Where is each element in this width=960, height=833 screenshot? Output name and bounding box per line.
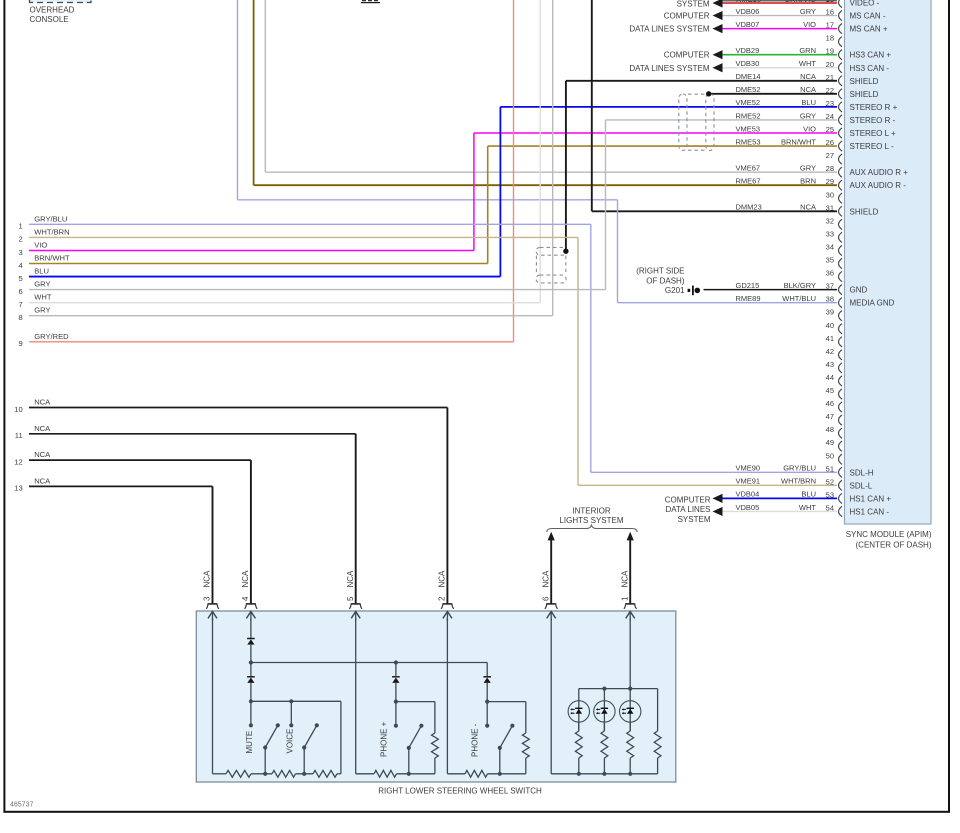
pin 51 bracket — [839, 467, 843, 477]
wire VME52 BLU pin23 — [500, 106, 837, 108]
svg-text:VDB07: VDB07 — [736, 20, 760, 29]
LED L1 wire to bus — [578, 758, 580, 774]
phone+ right branch upper — [434, 702, 436, 733]
svg-text:WHT/BLU: WHT/BLU — [782, 294, 816, 303]
svg-text:NCA: NCA — [800, 85, 816, 94]
junction dot common diode rail — [249, 660, 253, 664]
switch entry 3 arrow — [208, 612, 217, 619]
phone- pivot to bus — [499, 748, 501, 774]
D3 to phone+ contact — [395, 683, 397, 726]
LED L3 wire lower — [629, 722, 631, 731]
pin 17 bracket — [839, 24, 843, 34]
svg-text:VIO: VIO — [803, 20, 816, 29]
bus segment — [213, 773, 227, 775]
wire 1 NCA vertical to switch — [629, 540, 631, 603]
voice tap dot — [289, 699, 293, 703]
ground symbol G201 — [688, 286, 701, 296]
wire VME90 GRY/BLU pin51 — [591, 471, 837, 473]
switch wire pin2 down — [446, 618, 448, 774]
SYNC module (APIM) box — [845, 0, 932, 524]
phone- fixed contact — [485, 724, 489, 728]
svg-text:1: 1 — [18, 222, 22, 231]
switch entry 3 arrow stem — [212, 612, 214, 622]
wire GRY vertical pin6-pin24 — [605, 120, 607, 290]
wire WHT/BLU horizontal — [238, 199, 618, 201]
svg-text:NCA: NCA — [346, 570, 355, 588]
svg-text:465737: 465737 — [10, 802, 33, 809]
svg-text:PHONE +: PHONE + — [380, 721, 389, 757]
shield junction dot upper — [706, 91, 711, 96]
svg-text:VDB05: VDB05 — [736, 503, 760, 512]
svg-text:NCA: NCA — [241, 570, 250, 588]
wire WHT/BLU vertical from top — [237, 0, 239, 200]
svg-text:13: 13 — [14, 484, 22, 493]
wire WHT/BLU vertical to pin38 — [617, 200, 619, 303]
pin 25 bracket — [839, 128, 843, 138]
wire 4 BRN/WHT left pin — [29, 263, 488, 265]
wire 8 GRY left pin — [29, 315, 553, 317]
svg-text:SDL-H: SDL-H — [850, 468, 874, 477]
phone- node — [485, 700, 489, 704]
ladder right branch col1 — [340, 701, 342, 774]
pin 27 bracket — [839, 154, 843, 164]
pin 43 bracket — [839, 363, 843, 373]
bus dot phone- — [498, 772, 502, 776]
pin 48 bracket — [839, 428, 843, 438]
wire 12 NCA vertical to switch — [250, 460, 252, 603]
svg-text:VME90: VME90 — [736, 464, 761, 473]
pin 47 bracket — [839, 415, 843, 425]
svg-text:48: 48 — [826, 425, 834, 434]
resistor R8 — [575, 731, 582, 758]
svg-text:HS3 CAN +: HS3 CAN + — [850, 51, 892, 60]
switch wire pin1 down — [629, 618, 631, 689]
wire VIO vertical pin3-pin25 — [473, 133, 475, 250]
wire VDB06 GRY pin16 — [723, 15, 838, 17]
svg-text:6: 6 — [18, 287, 22, 296]
svg-text:NCA: NCA — [800, 72, 816, 81]
phone- pivot — [498, 746, 502, 750]
svg-text:AUX AUDIO R -: AUX AUDIO R - — [850, 181, 907, 190]
pin 29 bracket — [839, 180, 843, 190]
switch entry 2 connector cup — [441, 603, 454, 609]
LED L2 wire lower — [603, 722, 605, 731]
wire 10 NCA vertical to switch — [446, 408, 448, 604]
svg-text:10: 10 — [14, 405, 22, 414]
pin 32 bracket — [839, 219, 843, 229]
pin 33 bracket — [839, 232, 843, 242]
shield symbol lower (down pairs) — [536, 247, 566, 283]
diode D1 mute column — [247, 639, 255, 645]
switch entry 4 arrow stem — [250, 612, 252, 622]
svg-text:GRY/BLU: GRY/BLU — [783, 464, 816, 473]
svg-text:34: 34 — [826, 242, 834, 251]
switch entry 6 connector cup — [545, 603, 558, 609]
wire 11 NCA left pin — [29, 433, 356, 435]
svg-text:VDB30: VDB30 — [736, 59, 760, 68]
wire DME52 NCA pin22 — [709, 93, 837, 95]
svg-text:45: 45 — [826, 386, 834, 395]
bus segment — [251, 773, 272, 775]
svg-text:NCA: NCA — [34, 450, 51, 459]
svg-text:40: 40 — [826, 321, 834, 330]
pin 41 bracket — [839, 337, 843, 347]
wire VME67 GRY pin28 — [265, 171, 837, 173]
svg-text:NCA: NCA — [438, 570, 447, 588]
voice fixed contact — [289, 723, 293, 727]
wire 2 WHT/BRN left pin — [29, 236, 578, 238]
svg-text:2: 2 — [438, 596, 447, 601]
svg-text:18: 18 — [826, 34, 834, 43]
voice contact drop — [290, 701, 292, 725]
connector label C915 (cut) — [361, 0, 380, 3]
svg-text:35: 35 — [826, 256, 834, 265]
svg-text:GRY: GRY — [800, 7, 816, 16]
pin 16 bracket — [839, 10, 843, 20]
svg-text:DME52: DME52 — [736, 85, 761, 94]
LED L3 symbol — [622, 708, 634, 714]
svg-text:NCA: NCA — [541, 570, 550, 588]
phone- right branch lower — [525, 758, 527, 774]
switch entry 6 arrow stem — [550, 612, 552, 622]
svg-text:MEDIA GND: MEDIA GND — [850, 299, 895, 308]
svg-text:33: 33 — [826, 229, 834, 238]
voice arm tip — [315, 723, 319, 727]
svg-text:VIO: VIO — [34, 240, 47, 249]
svg-text:RME53: RME53 — [736, 137, 761, 146]
svg-text:COMPUTER: COMPUTER — [664, 51, 710, 60]
svg-text:SHIELD: SHIELD — [850, 77, 879, 86]
wire GRY/RED vertical pin9 to top — [513, 0, 515, 342]
pin 20 bracket — [839, 63, 843, 73]
row 15 wire (cut) to VIDEO- — [723, 2, 838, 4]
pin 38 bracket — [839, 298, 843, 308]
pin 44 bracket — [839, 376, 843, 386]
svg-text:BRN/WHT: BRN/WHT — [34, 254, 70, 263]
diode D2 mute column — [247, 677, 255, 683]
svg-text:MUTE: MUTE — [245, 731, 254, 754]
LED L2 wire to bus — [603, 758, 605, 774]
resistor R2 — [272, 770, 296, 777]
svg-text:RME67: RME67 — [736, 177, 761, 186]
wire GD215 BLK/GRY pin37 — [704, 289, 838, 291]
wire VME91 WHT/BRN pin52 — [578, 484, 837, 486]
switch wire pin6 down — [550, 618, 552, 774]
bus segment — [356, 773, 374, 775]
pin 45 bracket — [839, 389, 843, 399]
svg-text:DATA LINES: DATA LINES — [665, 505, 710, 514]
svg-text:STEREO L +: STEREO L + — [850, 129, 896, 138]
wire RME89 WHT/BLU pin38 — [618, 302, 838, 304]
D4 to phone- contact — [486, 683, 488, 726]
svg-text:4: 4 — [241, 596, 250, 601]
svg-text:MS CAN -: MS CAN - — [850, 12, 886, 21]
wire RME67 BRN pin29 — [254, 184, 837, 186]
switch entry 6 arrow — [547, 612, 556, 619]
bus dot phone+ — [407, 772, 411, 776]
off-page arrow row 54 — [713, 507, 723, 516]
pin 15 bracket — [839, 0, 843, 8]
interior lights brace — [547, 525, 638, 532]
bus segment — [488, 773, 526, 775]
switch entry 5 arrow — [351, 612, 360, 619]
bus segment — [447, 773, 465, 775]
svg-text:NCA: NCA — [800, 203, 816, 212]
wire BLU vertical pin5-pin23 — [499, 107, 501, 277]
wire GRY/BLU vertical pin1-pin51 — [590, 224, 592, 472]
wire RME52 GRY pin24 — [606, 119, 838, 121]
svg-text:AUX AUDIO R +: AUX AUDIO R + — [850, 168, 909, 177]
LED right branch upper — [657, 689, 659, 731]
resistor R4 phone+ — [432, 733, 439, 758]
svg-text:5: 5 — [346, 596, 355, 601]
svg-text:STEREO R -: STEREO R - — [850, 116, 896, 125]
wire VDB29 GRN pin19 — [723, 54, 838, 56]
wire 6 GRY left pin — [29, 289, 606, 291]
svg-text:46: 46 — [826, 399, 834, 408]
mute fixed contact — [249, 723, 253, 727]
LED top rail — [579, 688, 658, 690]
resistor R1 — [226, 770, 251, 777]
svg-text:9: 9 — [18, 339, 22, 348]
svg-text:SYNC MODULE (APIM): SYNC MODULE (APIM) — [846, 530, 932, 539]
interior lights up arrow left — [548, 532, 555, 541]
overhead console box (cut) — [30, 0, 92, 3]
svg-text:30: 30 — [826, 190, 834, 199]
LED L1 circle — [568, 701, 589, 722]
svg-text:GD215: GD215 — [736, 281, 760, 290]
svg-text:GRY/RED: GRY/RED — [34, 332, 69, 341]
wire 7 WHT left pin — [29, 302, 540, 304]
resistor R11 led branch — [654, 731, 661, 758]
svg-text:WHT: WHT — [34, 293, 52, 302]
svg-text:SHIELD: SHIELD — [850, 207, 879, 216]
pin 52 bracket — [839, 480, 843, 490]
mute arm tip — [276, 723, 280, 727]
svg-text:GRY: GRY — [800, 111, 816, 120]
svg-text:7: 7 — [18, 300, 22, 309]
ladder top rail col1 — [251, 700, 341, 702]
svg-text:VDB29: VDB29 — [736, 46, 760, 55]
svg-text:BRN/VIO: BRN/VIO — [785, 0, 816, 4]
svg-text:BRN: BRN — [800, 177, 816, 186]
svg-text:GRY: GRY — [34, 306, 50, 315]
pin 37 bracket — [839, 285, 843, 295]
svg-text:COMPUTER: COMPUTER — [664, 12, 710, 21]
svg-text:OF DASH): OF DASH) — [646, 277, 685, 286]
svg-text:SYSTEM: SYSTEM — [677, 0, 710, 8]
off-page arrow row 53 — [713, 494, 723, 503]
svg-text:39: 39 — [826, 308, 834, 317]
svg-text:SYSTEM: SYSTEM — [678, 515, 711, 524]
svg-text:NCA: NCA — [203, 570, 212, 588]
interior lights up arrow right — [627, 532, 634, 541]
svg-text:4: 4 — [18, 261, 22, 270]
svg-text:LIGHTS SYSTEM: LIGHTS SYSTEM — [559, 516, 623, 525]
svg-text:36: 36 — [826, 269, 834, 278]
phone+ top rail — [396, 701, 435, 703]
LED L3 circle — [620, 701, 641, 722]
pin 49 bracket — [839, 441, 843, 451]
LED L1 bus dot — [577, 772, 581, 776]
switch entry 1 arrow stem — [629, 612, 631, 622]
svg-text:STEREO L -: STEREO L - — [850, 142, 894, 151]
phone- arm tip — [510, 724, 514, 728]
wire 6 NCA vertical to switch — [550, 540, 552, 603]
switch entry 4 connector cup — [245, 603, 258, 609]
svg-text:12: 12 — [14, 457, 22, 466]
svg-text:PHONE -: PHONE - — [471, 723, 480, 757]
phone+ pivot to bus — [408, 748, 410, 774]
svg-text:VME53: VME53 — [736, 124, 761, 133]
svg-text:CONSOLE: CONSOLE — [30, 15, 69, 24]
LED bottom bus — [551, 773, 657, 775]
common diode rail — [251, 662, 487, 664]
switch wire pin4 down — [250, 618, 252, 639]
wire 9 GRY/RED left pin — [29, 341, 514, 343]
voice pivot to bus — [303, 748, 305, 774]
svg-text:VIO: VIO — [803, 124, 816, 133]
switch entry 3 connector cup — [206, 603, 219, 609]
wire GRY vertical pin8 to top — [552, 0, 554, 316]
svg-text:(RIGHT SIDE: (RIGHT SIDE — [636, 266, 684, 275]
wire VDB05 WHT pin54 — [723, 510, 838, 512]
mute pivot to bus — [264, 748, 266, 774]
phone- switch arm — [500, 726, 513, 748]
svg-text:44: 44 — [826, 373, 834, 382]
svg-text:G201: G201 — [665, 286, 685, 295]
svg-text:BLU: BLU — [801, 490, 816, 499]
svg-text:VIDEO -: VIDEO - — [850, 0, 880, 8]
mute switch arm — [265, 725, 278, 747]
wire WHT/BRN vertical pin2-pin52 — [577, 237, 579, 485]
pin 34 bracket — [839, 245, 843, 255]
pin 18 bracket — [839, 37, 843, 47]
svg-text:BLU: BLU — [801, 98, 816, 107]
wire 3 VIO left pin — [29, 249, 474, 251]
wire BRN/WHT vertical pin4-pin26 — [487, 146, 489, 263]
svg-text:SHIELD: SHIELD — [850, 90, 879, 99]
wire 12 NCA left pin — [29, 459, 251, 461]
svg-text:VME91: VME91 — [736, 477, 761, 486]
bus segment — [296, 773, 314, 775]
wire 10 NCA left pin — [29, 407, 447, 409]
svg-text:WHT/BRN: WHT/BRN — [34, 227, 69, 236]
wire 13 NCA left pin — [29, 485, 213, 487]
svg-text:DME14: DME14 — [736, 72, 761, 81]
svg-text:STEREO R +: STEREO R + — [850, 103, 898, 112]
phone- top rail — [487, 701, 526, 703]
wire RME53 BRN/WHT pin26 — [488, 145, 837, 147]
svg-text:RME15: RME15 — [736, 0, 761, 4]
svg-text:41: 41 — [826, 334, 834, 343]
off-page arrow row 17 — [713, 24, 723, 33]
bus dot mute — [263, 772, 267, 776]
switch entry 4 arrow — [246, 612, 255, 619]
rail to D3 — [395, 663, 397, 677]
svg-text:COMPUTER: COMPUTER — [665, 495, 711, 504]
resistor R7 — [465, 770, 488, 777]
shield junction dot lower — [563, 249, 568, 254]
phone+ fixed contact — [394, 724, 398, 728]
svg-text:WHT/BRN: WHT/BRN — [781, 477, 816, 486]
svg-text:VOICE: VOICE — [286, 729, 295, 754]
svg-text:VME52: VME52 — [736, 98, 761, 107]
svg-text:DMM23: DMM23 — [736, 203, 762, 212]
svg-text:GND: GND — [850, 286, 868, 295]
wire DMM23 NCA pin31 — [592, 210, 837, 212]
pin 40 bracket — [839, 324, 843, 334]
wire D1 to node — [250, 645, 252, 677]
phone+ node — [394, 700, 398, 704]
pin 36 bracket — [839, 271, 843, 281]
wire VME53 VIO pin25 — [474, 132, 837, 134]
phone+ pivot — [407, 746, 411, 750]
svg-text:15: 15 — [826, 0, 834, 4]
phone+ switch arm — [409, 726, 422, 748]
pin 26 bracket — [839, 141, 843, 151]
switch entry 1 arrow — [626, 612, 635, 619]
svg-text:6: 6 — [541, 596, 550, 601]
svg-text:5: 5 — [18, 274, 22, 283]
svg-text:NCA: NCA — [34, 398, 51, 407]
svg-text:MS CAN +: MS CAN + — [850, 25, 888, 34]
rail corner to D4 — [486, 663, 488, 677]
wire DME14 NCA pin21 — [566, 80, 837, 82]
resistor R5 — [374, 770, 397, 777]
switch entry 5 connector cup — [349, 603, 362, 609]
resistor R6 phone- — [522, 733, 529, 758]
LED L1 symbol — [570, 708, 582, 714]
svg-text:NCA: NCA — [34, 424, 51, 433]
pin 30 bracket — [839, 193, 843, 203]
diode D3 phone+ — [392, 677, 400, 683]
svg-text:BRN/WHT: BRN/WHT — [781, 137, 816, 146]
svg-text:27: 27 — [826, 151, 834, 160]
svg-text:HS3 CAN -: HS3 CAN - — [850, 64, 890, 73]
resistor R3 — [313, 770, 337, 777]
pin 35 bracket — [839, 258, 843, 268]
svg-text:3: 3 — [203, 596, 212, 601]
svg-text:WHT: WHT — [799, 503, 816, 512]
svg-text:3: 3 — [18, 248, 22, 257]
svg-text:11: 11 — [15, 431, 23, 440]
LED L2 circle — [594, 701, 615, 722]
wire D2 to mute contact — [250, 683, 252, 725]
svg-text:43: 43 — [826, 360, 834, 369]
resistor R9 — [601, 731, 608, 758]
bus dot voice — [302, 772, 306, 776]
junction node A — [249, 699, 253, 703]
svg-text:RME52: RME52 — [736, 111, 761, 120]
pin 39 bracket — [839, 311, 843, 321]
wire VDB30 WHT pin20 — [723, 67, 838, 69]
svg-text:VDB04: VDB04 — [736, 490, 760, 499]
LED right branch lower — [657, 758, 659, 774]
shield symbol upper (stereo pairs) — [679, 94, 714, 150]
off-page arrow row 19 — [713, 50, 723, 59]
pin 21 bracket — [839, 76, 843, 86]
rail dot led3 — [628, 687, 632, 691]
wire VDB04 BLU pin53 — [723, 497, 838, 499]
wire VDB07 VIO pin17 — [723, 28, 838, 30]
voice pivot — [302, 745, 306, 749]
pin 46 bracket — [839, 402, 843, 412]
svg-text:BLU: BLU — [34, 267, 49, 276]
svg-text:50: 50 — [826, 451, 834, 460]
svg-text:8: 8 — [18, 313, 22, 322]
LED L3 bus dot — [628, 772, 632, 776]
